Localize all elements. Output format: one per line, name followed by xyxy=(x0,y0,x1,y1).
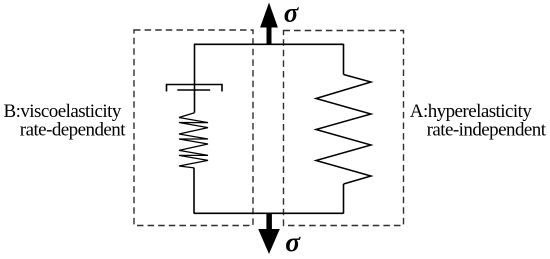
svg-text:rate-dependent: rate-dependent xyxy=(20,119,126,140)
dashpot piston plate xyxy=(177,89,210,91)
wire: left branch lower rod xyxy=(193,168,195,214)
spring A (hyperelastic branch) xyxy=(316,75,371,185)
svg-text:rate-independent: rate-independent xyxy=(427,119,547,140)
arrow: applied stress (down) xyxy=(258,213,280,254)
wire: right branch upper rod xyxy=(343,44,345,75)
wire: left branch rod (through dashpot) xyxy=(194,44,196,113)
svg-text:σ: σ xyxy=(284,0,300,27)
wire: bottom horizontal bus xyxy=(194,212,344,214)
arrow: applied stress (up) xyxy=(260,3,278,45)
svg-text:σ: σ xyxy=(285,226,301,257)
spring (viscoelastic branch) xyxy=(179,113,208,168)
wire: top horizontal bus xyxy=(194,43,344,45)
dashed box B (viscoelastic branch enclosure) xyxy=(134,30,253,226)
dashed box A (hyperelastic branch enclosure) xyxy=(284,31,404,226)
dashpot cylinder (cup with end flanges) xyxy=(167,85,223,92)
wire: right branch lower rod xyxy=(343,184,345,214)
